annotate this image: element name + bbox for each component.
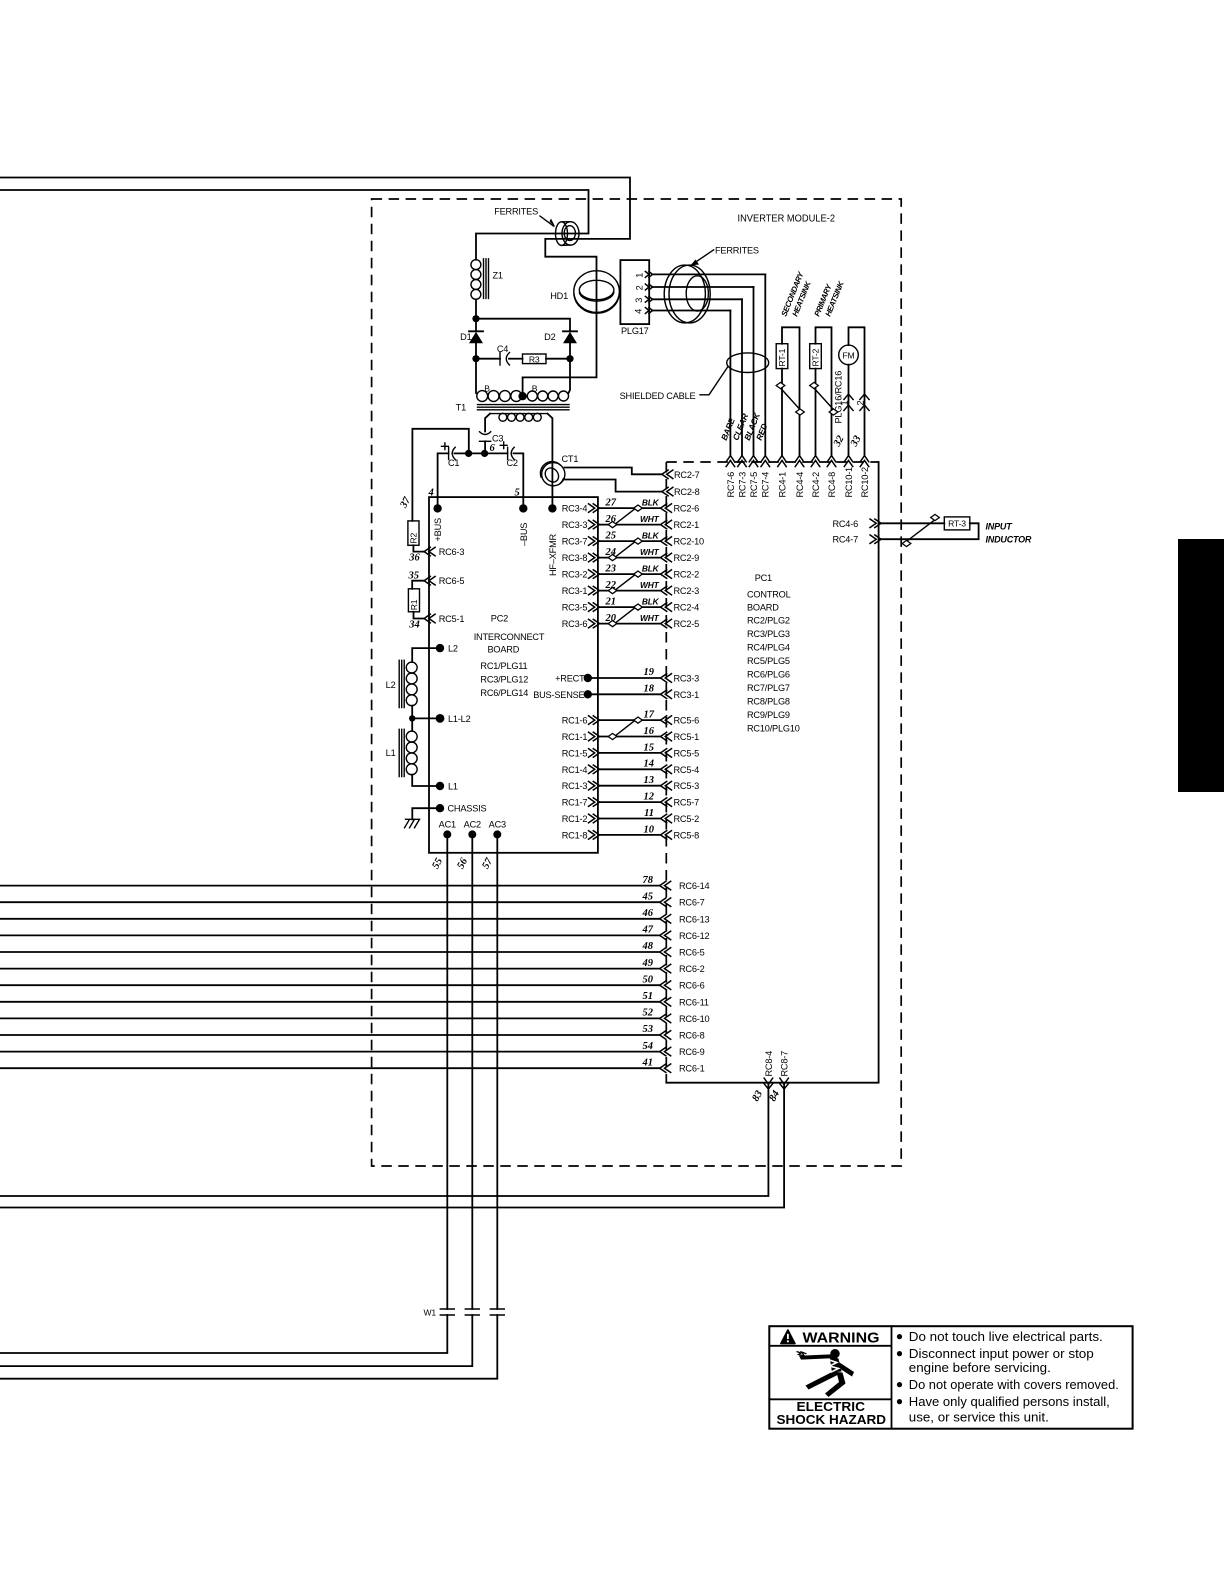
connector RC8-7 <box>0 1051 790 1208</box>
shock hazard pictogram <box>797 1349 855 1397</box>
wire number 37 <box>398 495 413 511</box>
svg-text:RC10-2: RC10-2 <box>860 467 870 498</box>
svg-text:Do not touch live electrical p: Do not touch live electrical parts. <box>909 1329 1103 1344</box>
crossover pair 607 <box>608 604 642 627</box>
wire number 57 <box>480 856 495 871</box>
svg-text:RC2-1: RC2-1 <box>674 520 700 530</box>
svg-text:RC2-6: RC2-6 <box>674 504 700 514</box>
svg-text:INVERTER MODULE-2: INVERTER MODULE-2 <box>738 214 836 225</box>
svg-text:PLG17: PLG17 <box>621 326 649 336</box>
svg-text:RC2-5: RC2-5 <box>674 619 700 629</box>
svg-text:RC4-4: RC4-4 <box>795 472 805 498</box>
svg-text:RC8/PLG8: RC8/PLG8 <box>747 696 790 706</box>
svg-text:12: 12 <box>644 792 655 803</box>
wire number 4 <box>428 488 434 499</box>
svg-text:RC2-10: RC2-10 <box>674 537 705 547</box>
svg-text:RC5-4: RC5-4 <box>674 765 700 775</box>
capacitor C4 <box>476 344 523 365</box>
svg-text:4: 4 <box>633 309 643 314</box>
svg-text:RC8-7: RC8-7 <box>780 1051 790 1077</box>
wire row RC6-5 from left <box>0 941 705 957</box>
svg-text:R2: R2 <box>409 532 419 543</box>
inductor L1 <box>386 718 417 776</box>
svg-text:RC8-4: RC8-4 <box>764 1051 774 1077</box>
svg-text:RC6/PLG6: RC6/PLG6 <box>747 669 790 679</box>
label PRIMARY HEATSINK <box>813 279 847 318</box>
svg-text:6: 6 <box>490 443 496 454</box>
svg-text:RC1-4: RC1-4 <box>562 765 588 775</box>
svg-text:RC3-3: RC3-3 <box>674 674 700 684</box>
svg-text:RC3-7: RC3-7 <box>562 537 588 547</box>
svg-text:AC1: AC1 <box>439 819 456 829</box>
svg-text:B: B <box>484 383 490 393</box>
svg-text:Do not operate with covers rem: Do not operate with covers removed. <box>909 1377 1119 1392</box>
node HF-XFMR <box>548 504 558 576</box>
wire RC6-5 to R1 <box>412 581 424 589</box>
svg-text:BLK: BLK <box>642 564 660 574</box>
diode D1 <box>460 319 483 359</box>
wire row RC6-10 from left <box>0 1008 710 1024</box>
svg-text:11: 11 <box>644 808 654 819</box>
svg-text:BLK: BLK <box>642 597 660 607</box>
svg-text:L1: L1 <box>448 782 458 792</box>
svg-text:CHASSIS: CHASSIS <box>448 804 487 814</box>
label SHIELDED CABLE <box>620 367 728 401</box>
wire L2 bottom to L1-L2 <box>409 706 440 722</box>
svg-text:RC1-3: RC1-3 <box>562 781 588 791</box>
svg-text:RC6-12: RC6-12 <box>679 931 710 941</box>
label INVERTER MODULE-2 <box>738 214 836 225</box>
svg-text:RC5-6: RC5-6 <box>674 716 700 726</box>
crossover pair 541 <box>608 538 642 561</box>
svg-text:54: 54 <box>643 1041 654 1052</box>
wire AC2 to W1 <box>0 834 472 1366</box>
connector RC4-8 (PC1 top) <box>827 456 837 498</box>
wire row RC3-4 to RC2-6 <box>562 498 699 514</box>
svg-text:RC2-8: RC2-8 <box>674 487 700 497</box>
connector RC10-1 (PC1 top) <box>844 456 854 498</box>
wire number 36 <box>408 553 420 564</box>
svg-text:RC6-6: RC6-6 <box>679 981 705 991</box>
wire row RC6-6 from left <box>0 974 705 990</box>
wire row RC1-6 to RC5-6 <box>562 710 699 726</box>
wires PLG17 to shielded cable <box>652 274 765 310</box>
wire R2 tap from C1 junction <box>412 429 468 521</box>
connector RC4-4 (PC1 top) <box>795 456 805 498</box>
svg-text:23: 23 <box>605 564 617 575</box>
wire number 35 <box>408 571 420 582</box>
svg-text:RC3-1: RC3-1 <box>674 690 700 700</box>
svg-text:RC6-1: RC6-1 <box>679 1064 705 1074</box>
svg-text:RC7-3: RC7-3 <box>737 472 747 498</box>
svg-text:RC6-2: RC6-2 <box>679 964 705 974</box>
wire row RC6-1 from left <box>0 1057 705 1073</box>
connector RC4-2 (PC1 top) <box>811 456 821 498</box>
svg-text:RC4/PLG4: RC4/PLG4 <box>747 642 790 652</box>
svg-text:19: 19 <box>644 667 655 678</box>
svg-text:49: 49 <box>642 958 654 969</box>
svg-text:HD1: HD1 <box>550 291 568 301</box>
svg-text:RC5-2: RC5-2 <box>674 814 700 824</box>
label SECONDARY HEATSINK <box>780 270 814 318</box>
svg-text:use, or service this unit.: use, or service this unit. <box>909 1409 1049 1424</box>
svg-text:FERRITES: FERRITES <box>494 207 538 217</box>
wire AC1 to W1 <box>0 834 447 1353</box>
svg-text:15: 15 <box>644 742 655 753</box>
svg-text:RC10-1: RC10-1 <box>844 467 854 498</box>
crossover RC1-6/RC1-1 <box>608 717 642 740</box>
wire row RC1-3 to RC5-3 <box>562 775 699 791</box>
inductor Z1 <box>471 259 503 300</box>
svg-text:27: 27 <box>605 498 617 509</box>
svg-text:RC6-8: RC6-8 <box>679 1031 705 1041</box>
svg-text:51: 51 <box>643 991 654 1002</box>
hall sensor HD1 <box>550 271 619 314</box>
wire CLEAR <box>730 299 750 455</box>
node +BUS <box>433 504 443 541</box>
wire row RC6-2 from left <box>0 958 705 974</box>
capacitor C2 <box>500 442 523 508</box>
connector RC6-5 <box>424 576 464 586</box>
wire row RC1-7 to RC5-7 <box>562 792 699 808</box>
svg-text:RC1-5: RC1-5 <box>562 748 588 758</box>
label PLG16/RC16 <box>834 371 844 424</box>
svg-text:RC1-8: RC1-8 <box>562 830 588 840</box>
svg-text:RC5-8: RC5-8 <box>674 830 700 840</box>
node L2 <box>436 644 458 654</box>
thermistor RT-2 (primary heatsink) <box>810 327 838 455</box>
svg-text:RC2-4: RC2-4 <box>674 603 700 613</box>
svg-text:RC3-8: RC3-8 <box>562 553 588 563</box>
svg-text:RC1-2: RC1-2 <box>562 814 588 824</box>
page tab (black) <box>1178 539 1224 792</box>
svg-text:RC3-6: RC3-6 <box>562 619 588 629</box>
node AC2 <box>464 819 481 838</box>
svg-text:PLG16/RC16: PLG16/RC16 <box>834 371 844 424</box>
wire row RC1-4 to RC5-4 <box>562 759 699 775</box>
wire row RC3-7 to RC2-10 <box>562 531 704 547</box>
warning title <box>803 1329 880 1346</box>
svg-text:45: 45 <box>642 891 654 902</box>
svg-text:RC2-9: RC2-9 <box>674 553 700 563</box>
svg-text:C4: C4 <box>497 344 508 354</box>
svg-text:14: 14 <box>644 759 655 770</box>
svg-text:BLK: BLK <box>642 498 660 508</box>
node label 6 <box>490 443 496 454</box>
svg-text:RC6-5: RC6-5 <box>679 948 705 958</box>
svg-text:D1: D1 <box>460 332 471 342</box>
svg-text:SHOCK HAZARD: SHOCK HAZARD <box>777 1412 887 1427</box>
wire number 34 <box>408 620 420 631</box>
svg-text:RC6/PLG14: RC6/PLG14 <box>480 688 528 698</box>
resistor R2 <box>408 521 419 545</box>
svg-text:WHT: WHT <box>640 580 660 590</box>
svg-text:RC4-6: RC4-6 <box>832 519 858 529</box>
svg-text:Have only qualified persons in: Have only qualified persons install, <box>909 1394 1110 1409</box>
svg-text:FERRITES: FERRITES <box>715 245 759 255</box>
svg-text:17: 17 <box>644 710 655 721</box>
svg-text:13: 13 <box>644 775 655 786</box>
svg-text:RC7-6: RC7-6 <box>726 472 736 498</box>
thermistor RT-1 (secondary heatsink) <box>776 327 804 455</box>
svg-text:BLK: BLK <box>642 531 660 541</box>
label FERRITES (bead) with leader <box>494 207 555 228</box>
svg-text:RC2-3: RC2-3 <box>674 586 700 596</box>
PC2 interconnect board outline <box>429 497 598 853</box>
node L1-L2 <box>436 714 471 724</box>
wire number 32 <box>831 433 846 449</box>
svg-text:WHT: WHT <box>640 514 660 524</box>
svg-text:RC7/PLG7: RC7/PLG7 <box>747 683 790 693</box>
svg-text:R3: R3 <box>529 354 540 364</box>
wire CT1 lead to RC2-8 <box>565 480 662 492</box>
wire R2 to RC6-3 <box>413 545 424 551</box>
svg-text:RC10/PLG10: RC10/PLG10 <box>747 723 800 733</box>
svg-text:INTERCONNECT: INTERCONNECT <box>474 632 545 642</box>
svg-text:RT-2: RT-2 <box>811 348 821 366</box>
wire row RC6-7 from left <box>0 891 705 907</box>
node: T1 center tap <box>518 392 526 400</box>
svg-text:RC4-8: RC4-8 <box>827 472 837 498</box>
svg-text:53: 53 <box>643 1024 654 1035</box>
node: C3 junction <box>481 450 508 457</box>
svg-text:2: 2 <box>634 285 644 290</box>
svg-text:WARNING: WARNING <box>803 1329 880 1346</box>
wire row RC1-8 to RC5-8 <box>562 824 699 840</box>
current transformer CT1 <box>540 454 578 486</box>
svg-text:Disconnect input power or stop: Disconnect input power or stop <box>909 1346 1094 1361</box>
wire L1 bottom <box>412 775 440 786</box>
svg-text:RC6-11: RC6-11 <box>679 997 709 1007</box>
label FERRITES (toroid) with leader <box>691 245 759 265</box>
svg-text:RC4-7: RC4-7 <box>832 535 858 545</box>
wire row RC3-5 to RC2-4 <box>562 597 699 613</box>
wire row RC6-12 from left <box>0 925 710 941</box>
node: D1 bottom junction <box>472 355 479 362</box>
ferrite toroid FB2 <box>664 265 710 323</box>
capacitor C1 <box>442 443 469 468</box>
svg-text:3: 3 <box>634 298 644 303</box>
svg-text:RC2/PLG2: RC2/PLG2 <box>747 615 790 625</box>
wire number 56 <box>455 856 470 871</box>
resistor R1 <box>408 589 419 612</box>
node AC1 <box>439 819 456 838</box>
svg-text:D2: D2 <box>544 332 555 342</box>
svg-text:+BUS: +BUS <box>433 518 443 542</box>
svg-text:PC2: PC2 <box>491 613 508 623</box>
wire AC3 to W1 <box>0 834 497 1378</box>
svg-text:RC6-9: RC6-9 <box>679 1047 705 1057</box>
svg-text:RC4-1: RC4-1 <box>777 472 787 498</box>
svg-text:BUS-SENSE: BUS-SENSE <box>533 690 584 700</box>
svg-text:L2: L2 <box>386 680 396 690</box>
node -BUS <box>519 504 529 546</box>
connector RC4-7 <box>832 535 881 545</box>
connector RC7-6 (PC1 top) <box>726 456 736 498</box>
svg-text:18: 18 <box>644 683 655 694</box>
svg-text:1: 1 <box>634 273 644 278</box>
svg-text:4: 4 <box>428 488 434 499</box>
svg-text:RC3/PLG3: RC3/PLG3 <box>747 629 790 639</box>
transformer T1 primary <box>476 359 570 402</box>
svg-text:RC3/PLG12: RC3/PLG12 <box>480 674 528 684</box>
svg-text:RC3-3: RC3-3 <box>562 520 588 530</box>
resistor R3 <box>523 354 571 364</box>
svg-text:36: 36 <box>408 553 420 564</box>
wire row RC6-8 from left <box>0 1024 705 1040</box>
svg-text:HF–XFMR: HF–XFMR <box>548 533 558 576</box>
wire number 5 <box>515 488 520 499</box>
connector RC7-3 (PC1 top) <box>737 456 747 498</box>
diode D2 <box>544 331 577 358</box>
svg-text:W1: W1 <box>424 1308 437 1318</box>
wire number 55 <box>430 856 445 870</box>
svg-text:RC2-2: RC2-2 <box>674 570 700 580</box>
svg-text:RC1-6: RC1-6 <box>562 716 588 726</box>
svg-text:L1-L2: L1-L2 <box>448 714 471 724</box>
wire row RC3-3 to RC2-1 <box>562 514 699 530</box>
svg-text:47: 47 <box>642 925 654 936</box>
svg-text:RC6-5: RC6-5 <box>439 576 465 586</box>
svg-text:RC9/PLG9: RC9/PLG9 <box>747 710 790 720</box>
wire CT1 lead to RC2-7 <box>565 468 662 475</box>
svg-text:L2: L2 <box>448 644 458 654</box>
wire row RC1-5 to RC5-5 <box>562 742 699 758</box>
svg-text:RC1/PLG11: RC1/PLG11 <box>480 661 527 671</box>
node: D2 bottom junction <box>566 355 573 362</box>
wire row RC1-2 to RC5-2 <box>562 808 699 824</box>
thermistor RT-3 (input inductor) <box>881 514 979 546</box>
wire number 33 <box>848 434 863 449</box>
wire: second feeder through ferrite bead to Z1 <box>0 190 589 260</box>
svg-text:5: 5 <box>515 488 520 499</box>
wire row RC6-13 from left <box>0 908 710 924</box>
crossover pair 574 <box>608 571 642 594</box>
wire row RC3-2 to RC2-2 <box>562 564 699 580</box>
svg-text:RC6-3: RC6-3 <box>439 547 465 557</box>
svg-text:RC5-1: RC5-1 <box>674 732 700 742</box>
svg-text:RC5/PLG5: RC5/PLG5 <box>747 656 790 666</box>
wire row RC6-11 from left <box>0 991 709 1007</box>
svg-text:RC6-14: RC6-14 <box>679 881 710 891</box>
svg-text:PC1: PC1 <box>755 573 772 583</box>
connector RC4-6 <box>832 519 881 529</box>
svg-text:25: 25 <box>605 531 617 542</box>
svg-text:+RECT: +RECT <box>555 674 585 684</box>
svg-text:AC3: AC3 <box>489 819 506 829</box>
capacitor C3 <box>480 432 504 454</box>
svg-text:16: 16 <box>644 726 655 737</box>
svg-text:RC6-7: RC6-7 <box>679 898 705 908</box>
svg-text:RC5-7: RC5-7 <box>674 798 700 808</box>
wire row RC3-6 to RC2-5 <box>562 613 699 629</box>
wire BARE <box>719 311 737 456</box>
wire Z1 to junction <box>472 299 479 322</box>
connector RC7-5 (PC1 top) <box>749 456 759 498</box>
inductor L2 <box>386 660 417 707</box>
svg-text:CONTROL: CONTROL <box>747 590 791 600</box>
node: C1/R2 junction <box>465 450 485 457</box>
node +RECT <box>555 667 699 684</box>
svg-text:C1: C1 <box>448 458 459 468</box>
svg-text:WHT: WHT <box>640 547 660 557</box>
svg-text:RC7-5: RC7-5 <box>749 472 759 498</box>
ground (chassis) <box>405 819 420 828</box>
node CHASSIS <box>436 804 487 814</box>
svg-text:RC2-7: RC2-7 <box>674 470 700 480</box>
svg-text:CT1: CT1 <box>562 454 579 464</box>
crossover pair 508 <box>608 505 642 528</box>
svg-text:C2: C2 <box>507 458 518 468</box>
wire row RC3-8 to RC2-9 <box>562 547 699 563</box>
PC1 control board outline <box>666 462 878 1083</box>
ferrite bead FB1 <box>556 222 580 246</box>
svg-text:RC3-1: RC3-1 <box>562 586 588 596</box>
connector RC4-1 (PC1 top) <box>777 456 787 498</box>
wire R1 to RC5-1 <box>414 612 425 619</box>
svg-text:BOARD: BOARD <box>747 603 779 613</box>
wire RED <box>754 274 770 455</box>
node L1 <box>436 782 458 792</box>
warning label box <box>769 1326 1132 1429</box>
svg-text:52: 52 <box>643 1008 654 1019</box>
svg-text:SHIELDED CABLE: SHIELDED CABLE <box>620 391 696 401</box>
connector RC10-2 (PC1 top) <box>860 456 870 498</box>
wire chassis to ground <box>412 808 440 819</box>
wire row RC3-1 to RC2-3 <box>562 580 699 596</box>
svg-text:RC4-2: RC4-2 <box>811 472 821 498</box>
svg-text:2: 2 <box>855 401 865 406</box>
svg-text:48: 48 <box>642 941 654 952</box>
connector PLG16/RC16 pin 1 <box>839 394 853 411</box>
warning bullet text <box>897 1329 1119 1425</box>
connector PLG17 <box>620 260 652 336</box>
svg-text:RT-3: RT-3 <box>948 519 966 529</box>
svg-text:WHT: WHT <box>640 613 660 623</box>
svg-text:RC3-2: RC3-2 <box>562 570 588 580</box>
capacitor W1 (three sections) <box>424 1308 505 1318</box>
svg-text:RC5-3: RC5-3 <box>674 781 700 791</box>
fan motor FM <box>839 327 865 455</box>
connector RC2-7 <box>662 470 700 480</box>
transformer T1 secondary <box>485 413 552 508</box>
svg-text:–BUS: –BUS <box>519 523 529 546</box>
svg-text:RC7-4: RC7-4 <box>761 472 771 498</box>
connector PLG16/RC16 pin 2 <box>855 394 869 411</box>
svg-text:T1: T1 <box>456 403 466 413</box>
svg-text:RT-1: RT-1 <box>777 348 787 366</box>
svg-text:78: 78 <box>643 875 654 886</box>
svg-text:BOARD: BOARD <box>488 644 520 654</box>
electric shock hazard text <box>777 1399 887 1427</box>
wire number 84 <box>767 1089 782 1103</box>
warning triangle icon <box>781 1330 795 1344</box>
svg-text:INPUT: INPUT <box>986 522 1014 532</box>
svg-text:RC1-7: RC1-7 <box>562 798 588 808</box>
svg-text:10: 10 <box>644 824 655 835</box>
svg-text:C3: C3 <box>492 433 503 443</box>
wire C1-C2 bus <box>438 453 449 508</box>
PC1 connector list <box>747 615 800 733</box>
wire row RC6-14 from left <box>0 875 710 891</box>
svg-text:INDUCTOR: INDUCTOR <box>986 535 1032 545</box>
svg-text:RC6-10: RC6-10 <box>679 1014 710 1024</box>
svg-text:41: 41 <box>642 1057 654 1068</box>
svg-text:46: 46 <box>642 908 654 919</box>
connector RC2-8 <box>662 487 700 497</box>
wire BLACK <box>742 287 762 456</box>
svg-text:B: B <box>532 383 538 393</box>
